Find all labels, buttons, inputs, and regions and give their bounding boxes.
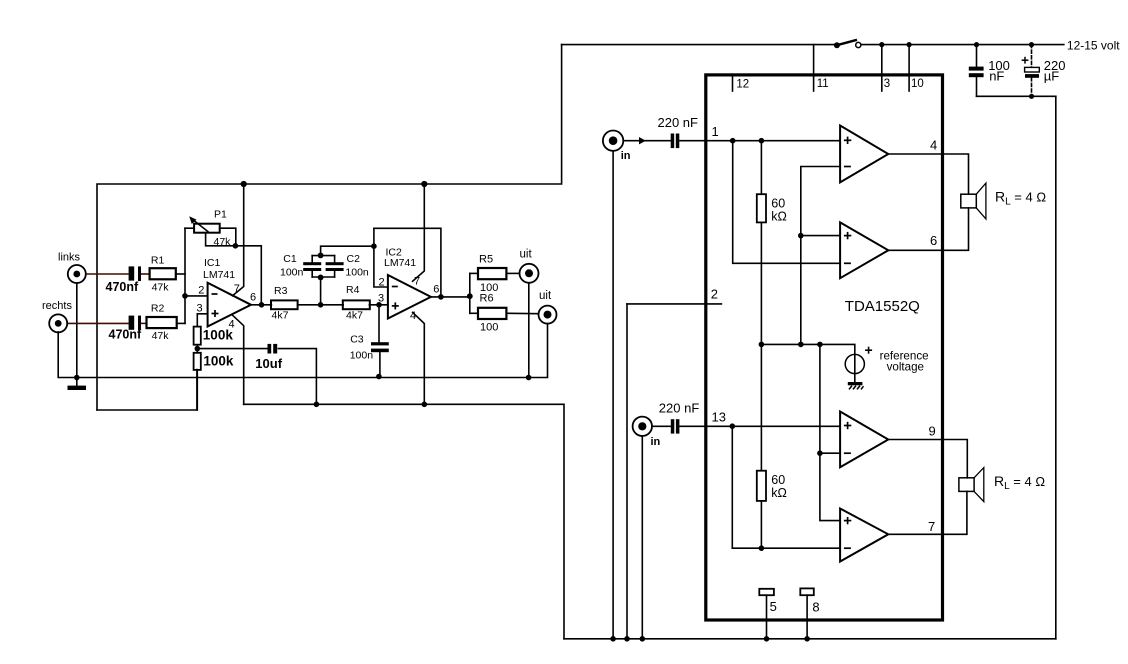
svg-text:7: 7 <box>234 283 240 295</box>
svg-text:4: 4 <box>930 137 937 152</box>
svg-text:100n: 100n <box>280 267 304 279</box>
svg-text:3: 3 <box>197 303 203 315</box>
svg-text:R3: R3 <box>274 285 288 297</box>
svg-text:C2: C2 <box>347 253 361 265</box>
svg-text:7: 7 <box>414 275 420 287</box>
svg-text:R4: R4 <box>346 284 360 296</box>
svg-text:7: 7 <box>928 519 935 534</box>
svg-text:1: 1 <box>712 124 719 139</box>
svg-text:220 nF: 220 nF <box>659 401 700 416</box>
svg-text:R2: R2 <box>151 303 165 315</box>
svg-text:8: 8 <box>812 599 819 614</box>
svg-text:47k: 47k <box>214 236 232 248</box>
svg-text:nF: nF <box>989 69 1004 84</box>
svg-text:13: 13 <box>712 410 726 425</box>
svg-text:100n: 100n <box>345 267 369 279</box>
svg-text:LM741: LM741 <box>384 257 416 269</box>
svg-text:µF: µF <box>1044 69 1059 84</box>
svg-text:11: 11 <box>817 78 829 90</box>
svg-text:rechts: rechts <box>42 300 72 312</box>
svg-text:12-15 volt: 12-15 volt <box>1067 39 1120 53</box>
svg-text:R1: R1 <box>151 255 165 267</box>
svg-text:4k7: 4k7 <box>272 309 289 321</box>
svg-text:100k: 100k <box>203 328 234 343</box>
svg-text:IC1: IC1 <box>204 257 221 269</box>
svg-text:10uf: 10uf <box>255 356 282 371</box>
svg-text:kΩ: kΩ <box>771 209 787 223</box>
svg-text:links: links <box>58 252 81 264</box>
svg-text:2: 2 <box>711 286 718 301</box>
svg-text:C1: C1 <box>283 253 297 265</box>
svg-text:470nf: 470nf <box>106 280 139 294</box>
svg-text:100: 100 <box>480 321 498 333</box>
svg-text:6: 6 <box>433 283 439 295</box>
svg-text:in: in <box>621 150 631 162</box>
svg-text:TDA1552Q: TDA1552Q <box>845 298 920 315</box>
svg-text:100n: 100n <box>350 350 374 362</box>
svg-text:C3: C3 <box>350 334 364 346</box>
svg-text:470nf: 470nf <box>109 328 142 342</box>
svg-text:3: 3 <box>378 293 384 305</box>
svg-text:kΩ: kΩ <box>771 486 787 500</box>
svg-text:P1: P1 <box>214 208 227 220</box>
svg-text:4k7: 4k7 <box>346 309 363 321</box>
svg-text:uit: uit <box>539 290 552 302</box>
svg-text:60: 60 <box>771 473 785 487</box>
svg-text:10: 10 <box>911 78 924 90</box>
svg-text:4: 4 <box>410 310 416 322</box>
svg-text:2: 2 <box>198 284 204 296</box>
svg-text:220 nF: 220 nF <box>658 115 699 130</box>
svg-text:60: 60 <box>771 196 785 210</box>
svg-text:3: 3 <box>884 78 890 90</box>
svg-text:5: 5 <box>770 599 777 614</box>
svg-text:voltage: voltage <box>887 361 924 374</box>
svg-text:2: 2 <box>379 276 385 288</box>
svg-text:12: 12 <box>736 78 749 90</box>
svg-text:9: 9 <box>929 423 936 438</box>
svg-text:R6: R6 <box>480 293 494 305</box>
svg-text:100k: 100k <box>203 354 234 369</box>
svg-text:LM741: LM741 <box>203 269 235 281</box>
svg-text:6: 6 <box>250 292 256 304</box>
svg-text:6: 6 <box>930 233 937 248</box>
svg-text:uit: uit <box>520 249 533 261</box>
svg-text:47k: 47k <box>152 282 170 294</box>
svg-text:in: in <box>651 436 661 448</box>
svg-text:R5: R5 <box>479 254 493 266</box>
svg-text:47k: 47k <box>152 330 170 342</box>
